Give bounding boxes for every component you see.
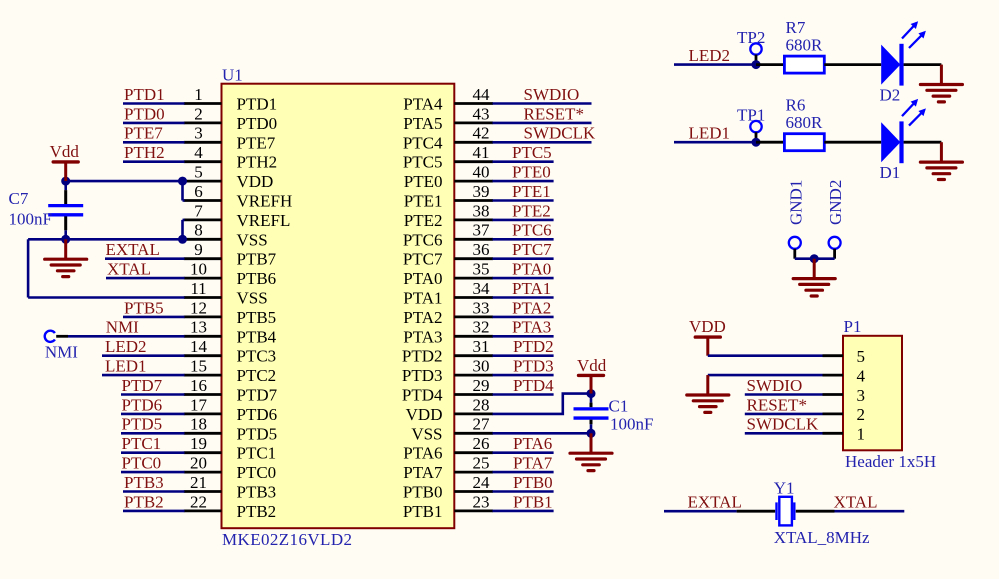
svg-text:3: 3	[194, 124, 203, 143]
svg-text:PTD6: PTD6	[237, 405, 278, 424]
svg-text:PTC6: PTC6	[403, 230, 443, 249]
svg-text:PTD7: PTD7	[237, 386, 278, 405]
svg-text:PTD6: PTD6	[122, 395, 163, 414]
svg-text:21: 21	[190, 473, 207, 492]
svg-text:PTB4: PTB4	[237, 327, 277, 346]
svg-text:PTC1: PTC1	[122, 434, 162, 453]
svg-text:LED1: LED1	[689, 124, 731, 143]
svg-text:VSS: VSS	[237, 230, 268, 249]
svg-text:P1: P1	[844, 317, 862, 336]
svg-text:PTC1: PTC1	[237, 444, 277, 463]
svg-text:PTE1: PTE1	[512, 182, 551, 201]
svg-text:8: 8	[194, 221, 203, 240]
svg-text:2: 2	[857, 405, 866, 424]
svg-text:PTA6: PTA6	[403, 444, 442, 463]
svg-text:LED2: LED2	[105, 337, 147, 356]
svg-text:5: 5	[857, 347, 866, 366]
svg-text:PTA3: PTA3	[512, 318, 551, 337]
svg-text:PTD5: PTD5	[122, 415, 163, 434]
svg-text:U1: U1	[222, 66, 243, 85]
svg-text:36: 36	[473, 240, 490, 259]
svg-text:VDD: VDD	[689, 317, 726, 336]
svg-text:R6: R6	[786, 96, 806, 115]
svg-text:PTC5: PTC5	[512, 143, 552, 162]
svg-text:4: 4	[857, 366, 866, 385]
svg-text:Vdd: Vdd	[50, 142, 80, 161]
svg-text:4: 4	[194, 143, 203, 162]
svg-text:C1: C1	[609, 397, 629, 416]
svg-text:LED2: LED2	[689, 46, 731, 65]
svg-text:40: 40	[473, 163, 490, 182]
svg-text:5: 5	[194, 163, 203, 182]
svg-text:38: 38	[473, 201, 490, 220]
svg-text:PTA2: PTA2	[403, 308, 442, 327]
svg-text:VREFH: VREFH	[237, 192, 293, 211]
svg-text:PTH2: PTH2	[124, 143, 165, 162]
svg-text:RESET*: RESET*	[747, 395, 807, 414]
svg-text:33: 33	[473, 298, 490, 317]
svg-text:11: 11	[190, 279, 206, 298]
svg-text:D1: D1	[880, 163, 901, 182]
svg-text:100nF: 100nF	[610, 415, 653, 434]
svg-text:PTC0: PTC0	[237, 463, 277, 482]
svg-text:SWDIO: SWDIO	[524, 85, 580, 104]
svg-text:37: 37	[473, 221, 491, 240]
svg-text:NMI: NMI	[106, 317, 139, 336]
svg-text:EXTAL: EXTAL	[106, 240, 160, 259]
svg-text:PTB1: PTB1	[513, 492, 553, 511]
svg-text:16: 16	[190, 376, 207, 395]
svg-text:PTA4: PTA4	[403, 95, 443, 114]
svg-text:PTD7: PTD7	[122, 376, 163, 395]
svg-text:1: 1	[194, 85, 203, 104]
svg-text:27: 27	[473, 415, 491, 434]
svg-text:XTAL_8MHz: XTAL_8MHz	[774, 528, 870, 547]
svg-text:PTA7: PTA7	[403, 463, 443, 482]
svg-text:PTB0: PTB0	[403, 483, 443, 502]
svg-text:VDD: VDD	[406, 405, 443, 424]
svg-text:PTC0: PTC0	[122, 454, 162, 473]
svg-text:35: 35	[473, 260, 490, 279]
svg-text:26: 26	[473, 434, 490, 453]
svg-text:D2: D2	[880, 86, 901, 105]
svg-text:22: 22	[190, 492, 207, 511]
svg-text:NMI: NMI	[45, 343, 78, 362]
svg-text:VSS: VSS	[411, 424, 442, 443]
svg-text:PTC4: PTC4	[403, 133, 443, 152]
svg-text:PTA5: PTA5	[403, 114, 442, 133]
svg-text:TP1: TP1	[737, 105, 765, 124]
svg-text:PTC3: PTC3	[237, 347, 277, 366]
svg-text:Vdd: Vdd	[577, 356, 607, 375]
svg-text:PTE0: PTE0	[404, 172, 443, 191]
svg-text:25: 25	[473, 454, 490, 473]
svg-text:PTC6: PTC6	[512, 221, 552, 240]
svg-text:PTB2: PTB2	[124, 492, 164, 511]
svg-text:PTE7: PTE7	[124, 124, 163, 143]
svg-text:C7: C7	[9, 189, 29, 208]
svg-text:20: 20	[190, 454, 207, 473]
svg-text:PTA0: PTA0	[403, 269, 442, 288]
svg-text:PTB5: PTB5	[124, 298, 164, 317]
svg-text:VREFL: VREFL	[237, 211, 291, 230]
svg-text:31: 31	[473, 337, 490, 356]
svg-text:RESET*: RESET*	[524, 104, 584, 123]
svg-text:PTB6: PTB6	[237, 269, 277, 288]
svg-text:1: 1	[857, 425, 866, 444]
svg-text:PTD4: PTD4	[402, 386, 443, 405]
svg-text:TP2: TP2	[737, 28, 765, 47]
svg-text:PTD0: PTD0	[124, 104, 165, 123]
svg-text:PTA3: PTA3	[403, 327, 442, 346]
svg-text:PTD0: PTD0	[237, 114, 278, 133]
svg-text:680R: 680R	[786, 113, 824, 132]
svg-text:PTE0: PTE0	[512, 163, 551, 182]
svg-text:2: 2	[194, 104, 203, 123]
svg-text:LED1: LED1	[105, 357, 147, 376]
svg-text:PTB5: PTB5	[237, 308, 277, 327]
svg-text:17: 17	[190, 395, 208, 414]
svg-text:PTE2: PTE2	[404, 211, 443, 230]
svg-text:VSS: VSS	[237, 289, 268, 308]
svg-text:XTAL: XTAL	[834, 493, 878, 512]
svg-text:6: 6	[194, 182, 203, 201]
svg-text:PTD4: PTD4	[513, 376, 554, 395]
svg-text:19: 19	[190, 434, 207, 453]
svg-text:SWDCLK: SWDCLK	[524, 124, 597, 143]
svg-text:Header 1x5H: Header 1x5H	[845, 452, 936, 471]
svg-text:680R: 680R	[786, 35, 824, 54]
svg-text:12: 12	[190, 298, 207, 317]
svg-text:PTA1: PTA1	[512, 279, 551, 298]
svg-text:34: 34	[473, 279, 491, 298]
svg-text:7: 7	[194, 201, 203, 220]
svg-text:PTA6: PTA6	[513, 434, 552, 453]
svg-text:PTE2: PTE2	[512, 201, 551, 220]
svg-text:SWDCLK: SWDCLK	[747, 415, 820, 434]
svg-text:PTC7: PTC7	[512, 240, 552, 259]
svg-text:43: 43	[473, 104, 490, 123]
svg-text:MKE02Z16VLD2: MKE02Z16VLD2	[222, 530, 352, 549]
svg-text:R7: R7	[786, 18, 806, 37]
svg-text:GND2: GND2	[826, 180, 845, 225]
svg-text:Y1: Y1	[774, 479, 795, 498]
svg-text:24: 24	[473, 473, 491, 492]
svg-text:15: 15	[190, 357, 207, 376]
svg-text:44: 44	[473, 85, 491, 104]
svg-text:PTA0: PTA0	[512, 260, 551, 279]
svg-text:PTB3: PTB3	[124, 473, 164, 492]
svg-text:100nF: 100nF	[9, 210, 52, 229]
svg-text:PTD1: PTD1	[237, 95, 278, 114]
svg-text:PTH2: PTH2	[237, 153, 278, 172]
svg-text:32: 32	[473, 318, 490, 337]
svg-text:PTA2: PTA2	[512, 298, 551, 317]
svg-text:13: 13	[190, 318, 207, 337]
svg-text:VDD: VDD	[237, 172, 274, 191]
svg-text:42: 42	[473, 124, 490, 143]
svg-text:PTB7: PTB7	[237, 250, 277, 269]
svg-text:PTB0: PTB0	[513, 473, 553, 492]
svg-text:PTD5: PTD5	[237, 424, 278, 443]
svg-text:14: 14	[190, 337, 208, 356]
svg-text:SWDIO: SWDIO	[747, 376, 803, 395]
svg-text:PTA1: PTA1	[403, 289, 442, 308]
svg-text:PTA7: PTA7	[513, 454, 553, 473]
svg-text:PTB3: PTB3	[237, 483, 277, 502]
svg-text:PTE1: PTE1	[404, 192, 443, 211]
svg-text:10: 10	[190, 260, 207, 279]
svg-text:XTAL: XTAL	[107, 260, 151, 279]
svg-text:PTD3: PTD3	[513, 357, 554, 376]
svg-text:GND1: GND1	[787, 180, 806, 225]
svg-text:PTC2: PTC2	[237, 366, 277, 385]
svg-text:23: 23	[473, 492, 490, 511]
svg-text:18: 18	[190, 415, 207, 434]
svg-text:PTD1: PTD1	[124, 85, 165, 104]
svg-text:PTE7: PTE7	[237, 133, 276, 152]
svg-text:9: 9	[194, 240, 203, 259]
svg-text:EXTAL: EXTAL	[688, 493, 742, 512]
svg-text:29: 29	[473, 376, 490, 395]
svg-text:30: 30	[473, 357, 490, 376]
svg-text:28: 28	[473, 395, 490, 414]
svg-text:PTD3: PTD3	[402, 366, 443, 385]
svg-text:41: 41	[473, 143, 490, 162]
svg-text:PTC5: PTC5	[403, 153, 443, 172]
svg-text:PTB2: PTB2	[237, 502, 277, 521]
svg-text:PTB1: PTB1	[403, 502, 443, 521]
svg-text:PTD2: PTD2	[402, 347, 443, 366]
svg-text:PTD2: PTD2	[513, 337, 554, 356]
svg-text:3: 3	[857, 386, 866, 405]
svg-text:PTC7: PTC7	[403, 250, 443, 269]
svg-text:39: 39	[473, 182, 490, 201]
